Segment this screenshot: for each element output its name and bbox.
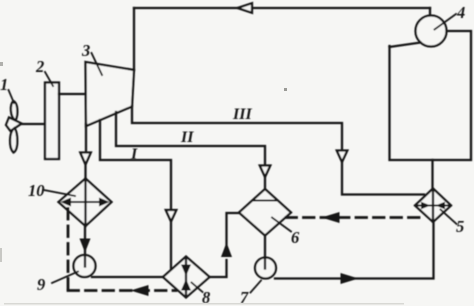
leader 2 [45, 72, 53, 86]
leader 4 [435, 14, 457, 30]
leader 8 [192, 283, 203, 293]
svg-text:10: 10 [28, 181, 45, 200]
wire circle4 to vessel left [390, 43, 421, 48]
vessel right rectangle [390, 31, 472, 160]
leader 9 [52, 272, 78, 284]
svg-text:III: III [232, 106, 252, 123]
wire top loop right vertical to boiler circle [429, 8, 431, 16]
rectangle 2 [45, 83, 59, 160]
svg-text:9: 9 [37, 275, 45, 294]
arrow open down on extraction III [337, 151, 348, 163]
arrow filled right on bottom wire [341, 273, 359, 284]
pump circle 7 [255, 258, 276, 279]
wire hx8 right to riser with filled up arrow [210, 260, 227, 277]
wire turbine to hx10 [85, 124, 87, 152]
arrow filled down to pump 9 [80, 239, 91, 253]
leader 10 [44, 190, 75, 196]
wire top loop horizontal [134, 7, 430, 9]
hx10 internal double arrow [66, 201, 105, 203]
dashed drain hx5 to heater6 [286, 216, 425, 219]
svg-text:4: 4 [456, 3, 465, 22]
wire extraction III [132, 106, 342, 150]
wire fan shaft [21, 123, 45, 125]
wire pump9 to hx8 [92, 276, 163, 278]
pump circle 9 [74, 255, 96, 277]
heat exchanger 5 diamond [415, 189, 451, 223]
wire pump7 right with filled right arrow [275, 222, 434, 279]
turbine 3 [86, 62, 135, 126]
wire top loop left vertical [133, 8, 135, 70]
hx10 internal vertical [84, 179, 86, 227]
arrow open left on top wire [238, 3, 253, 13]
leader 6 [272, 218, 291, 232]
svg-text:5: 5 [456, 217, 464, 236]
arrow filled left on hx5 drain [322, 212, 340, 223]
wire extraction I [100, 120, 171, 210]
svg-text:II: II [180, 129, 194, 146]
arrow open down on extraction II [260, 166, 271, 178]
arrow filled left on bottom drain [131, 285, 149, 296]
heat exchanger 10 diamond [59, 179, 112, 227]
fan 1 blade top [11, 101, 18, 121]
circle 4 [416, 16, 447, 47]
svg-text:1: 1 [0, 75, 8, 94]
scan artifacts [0, 62, 287, 262]
svg-text:I: I [130, 146, 138, 163]
hx5 internal vertical [432, 189, 434, 222]
leader 1 [9, 90, 15, 103]
hx8 internal vertical with converging arrows [185, 258, 187, 297]
dashed drain bottom to hx8 [68, 289, 176, 292]
svg-text:3: 3 [81, 41, 90, 60]
arrow open down on wire to hx10 [80, 153, 91, 165]
leader 7 [251, 281, 262, 293]
heat exchanger 8 diamond [163, 257, 210, 298]
leader 3 [92, 53, 103, 75]
arrow open down on extraction I [166, 210, 177, 222]
fan 1 blade bottom [10, 128, 17, 153]
wire hx10 to pump9 with filled down arrow [84, 226, 86, 240]
heater 6 diamond [239, 189, 291, 236]
svg-text:2: 2 [35, 57, 44, 76]
fan 1 hub cone [6, 118, 22, 132]
svg-text:6: 6 [291, 228, 300, 247]
wire rect2 to turbine [59, 93, 86, 95]
wire extraction II [116, 112, 265, 165]
wire vessel to hx5 [431, 160, 433, 189]
leader 5 [441, 210, 457, 225]
wire heater6 to pump7 [264, 236, 266, 269]
hx5 internal double arrow converging [417, 205, 449, 207]
dashed drain hx10 down [67, 209, 70, 291]
arrow filled up on riser [221, 243, 232, 258]
heater 6 internal chord [253, 200, 278, 202]
